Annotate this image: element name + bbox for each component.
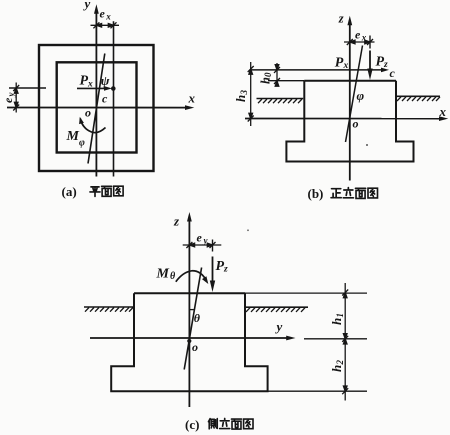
svg-text:z: z bbox=[173, 214, 180, 229]
svg-text:φ: φ bbox=[79, 137, 85, 148]
svg-text:φ: φ bbox=[357, 88, 365, 103]
svg-text:e: e bbox=[355, 28, 361, 42]
svg-text:y: y bbox=[83, 0, 91, 11]
svg-text:z: z bbox=[383, 60, 388, 70]
svg-text:2: 2 bbox=[335, 360, 345, 366]
svg-text:0: 0 bbox=[263, 72, 273, 77]
svg-text:θ: θ bbox=[170, 271, 176, 282]
svg-text:M: M bbox=[66, 129, 80, 144]
svg-text:z: z bbox=[223, 265, 228, 275]
svg-text:z: z bbox=[338, 12, 344, 26]
svg-text:e: e bbox=[1, 97, 15, 103]
svg-text:M: M bbox=[156, 267, 170, 282]
svg-text:h: h bbox=[259, 77, 273, 84]
svg-text:(c): (c) bbox=[185, 417, 199, 432]
svg-text:x: x bbox=[188, 90, 196, 105]
svg-text:e: e bbox=[100, 7, 106, 21]
svg-text:c: c bbox=[390, 66, 396, 80]
svg-text:x: x bbox=[87, 80, 93, 90]
svg-text:e: e bbox=[197, 231, 203, 245]
svg-text:c: c bbox=[102, 92, 108, 106]
svg-text:h: h bbox=[329, 365, 344, 372]
svg-text:x: x bbox=[439, 104, 447, 119]
svg-text:x: x bbox=[343, 61, 349, 71]
svg-text:x: x bbox=[361, 33, 367, 43]
svg-text:(a): (a) bbox=[62, 184, 77, 199]
svg-text:h: h bbox=[233, 95, 248, 102]
svg-text:3: 3 bbox=[239, 90, 249, 96]
svg-text:h: h bbox=[329, 318, 344, 325]
svg-text:x: x bbox=[105, 12, 111, 22]
svg-text:1: 1 bbox=[335, 313, 345, 318]
svg-text:ψ: ψ bbox=[101, 73, 110, 88]
svg-text:θ: θ bbox=[194, 311, 201, 325]
svg-text:P: P bbox=[335, 56, 344, 71]
svg-text:y: y bbox=[275, 319, 283, 334]
svg-text:o: o bbox=[85, 106, 91, 120]
svg-text:o: o bbox=[353, 117, 359, 131]
svg-text:o: o bbox=[192, 340, 198, 354]
svg-text:(b): (b) bbox=[308, 186, 324, 201]
